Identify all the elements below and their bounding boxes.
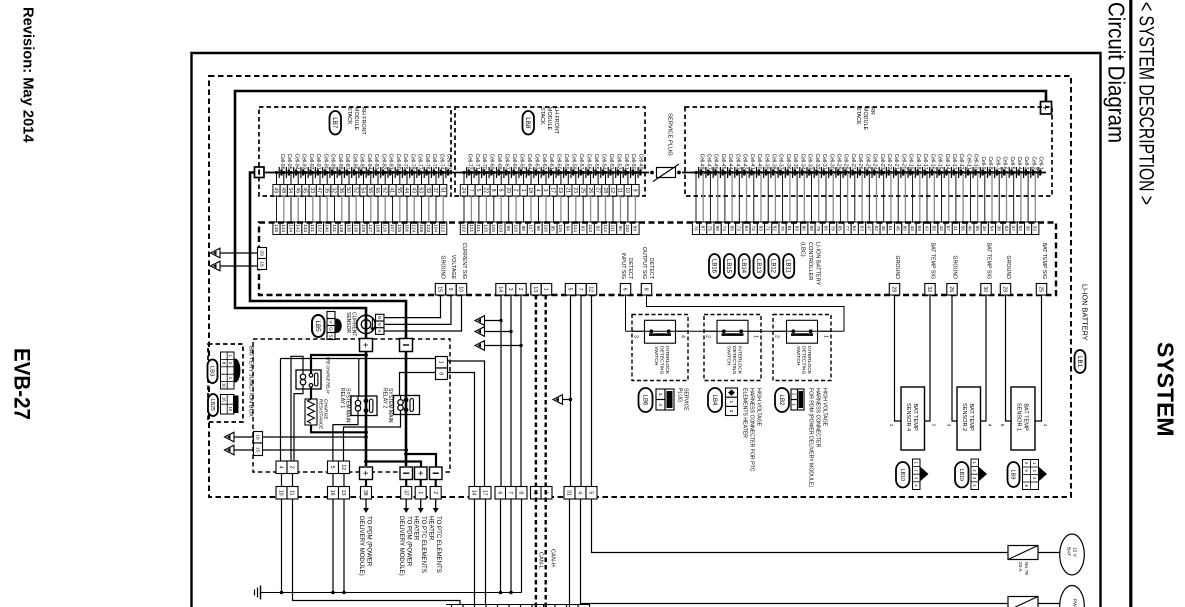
svg-text:25: 25 — [1038, 286, 1044, 292]
svg-text:20: 20 — [505, 187, 511, 193]
12 V battery ellipse — [1060, 534, 1085, 575]
svg-text:2: 2 — [792, 393, 797, 396]
connector grid LB3 — [221, 352, 235, 389]
terminal box + — [360, 339, 373, 352]
wire positive branch to + terminal 2 — [366, 462, 421, 468]
service plug disconnect symbol — [650, 171, 654, 175]
arrow to PDM (pin 37) — [405, 499, 407, 509]
svg-text:1: 1 — [1043, 424, 1048, 427]
svg-text:INTERLOCK: INTERLOCK — [737, 346, 743, 375]
svg-text:62: 62 — [381, 187, 387, 193]
svg-text:49: 49 — [273, 187, 279, 193]
svg-text:51: 51 — [439, 187, 445, 193]
harness triangle row 3 — [475, 341, 485, 351]
wire pin8 to ground — [521, 499, 523, 593]
current sensor toroid — [357, 315, 375, 333]
svg-text:35: 35 — [323, 187, 329, 193]
svg-text:5: 5 — [567, 288, 573, 291]
svg-text:HIGH VOLTAGE: HIGH VOLTAGE — [822, 388, 828, 427]
svg-text:8: 8 — [518, 491, 524, 494]
svg-text:23: 23 — [572, 187, 578, 193]
svg-text:75: 75 — [708, 226, 713, 232]
svg-text:137: 137 — [368, 224, 373, 232]
svg-text:1: 1 — [729, 401, 734, 404]
svg-text:Circuit Diagram: Circuit Diagram — [1104, 2, 1130, 143]
wire precharge branch bottom — [310, 387, 312, 399]
wire pin2 to pin11 — [292, 474, 294, 488]
svg-text:55: 55 — [396, 187, 402, 193]
svg-text:S: S — [376, 329, 382, 332]
svg-text:LB25: LB25 — [209, 399, 215, 411]
svg-text:BAT TEMP SIG: BAT TEMP SIG — [1041, 243, 1047, 279]
svg-text:CONTROLLER: CONTROLLER — [807, 242, 813, 280]
svg-text:15: 15 — [228, 407, 233, 412]
svg-text:RR: RR — [869, 107, 875, 115]
svg-text:TO PDM (POWER: TO PDM (POWER — [366, 516, 373, 567]
connector grid LB10 (sensor 2) — [971, 459, 979, 490]
svg-text:No.79: No.79 — [1023, 562, 1029, 575]
svg-text:SWITCH: SWITCH — [653, 346, 659, 366]
svg-text:SYSTEM: SYSTEM — [1153, 342, 1179, 437]
svg-text:31: 31 — [566, 490, 572, 496]
svg-text:3: 3 — [507, 288, 513, 291]
svg-text:LB13: LB13 — [755, 259, 761, 274]
svg-text:29: 29 — [1002, 286, 1008, 292]
svg-text:LH FRONT: LH FRONT — [553, 107, 559, 135]
connector oval LB3 — [208, 360, 218, 384]
svg-text:6: 6 — [497, 189, 503, 192]
svg-text:1: 1 — [438, 361, 444, 364]
power source ellipse — [1060, 586, 1085, 607]
wire pin6 to ground — [500, 499, 502, 593]
LBC pin 20 — [258, 248, 267, 259]
svg-text:18: 18 — [258, 261, 264, 267]
wire -2 to pin2 — [435, 480, 437, 488]
wire pin 16 voltage sense to + line — [263, 436, 367, 438]
junction box pin 5 bottom — [328, 461, 339, 474]
svg-text:4: 4 — [680, 335, 686, 338]
svg-text:CURRENT SIG: CURRENT SIG — [461, 243, 467, 279]
svg-text:112: 112 — [603, 224, 608, 232]
svg-text:BAT TEMP: BAT TEMP — [968, 403, 974, 431]
wire SMR2 coil return to pin 12 — [344, 415, 401, 462]
battery boundary pin 2 — [430, 487, 441, 500]
LBC pin 12 — [586, 284, 596, 296]
svg-text:Revision: May 2014: Revision: May 2014 — [20, 7, 36, 143]
svg-text:LB6: LB6 — [641, 395, 647, 406]
svg-text:12 V: 12 V — [1072, 547, 1078, 558]
svg-text:20: 20 — [258, 250, 264, 256]
header rule — [1129, 0, 1132, 607]
svg-text:8: 8 — [438, 372, 444, 375]
svg-text:93: 93 — [581, 226, 586, 232]
LBC pin 32 — [925, 284, 935, 296]
svg-text:65: 65 — [838, 226, 843, 232]
svg-text:6: 6 — [622, 288, 628, 291]
svg-text:56: 56 — [367, 187, 373, 193]
svg-text:70: 70 — [780, 226, 785, 232]
svg-text:SERVICE PLUG: SERVICE PLUG — [667, 113, 673, 156]
svg-text:5: 5 — [475, 189, 481, 192]
wire pin 15 voltage sense to - line — [263, 449, 407, 451]
svg-text:DETECT: DETECT — [648, 258, 654, 280]
svg-text:DELIVERY MODULE): DELIVERY MODULE) — [358, 516, 365, 576]
svg-text:FOR PDM (POWER DELIVERY MODULE: FOR PDM (POWER DELIVERY MODULE) — [808, 388, 814, 487]
wire HV positive through SMR1 — [365, 352, 368, 467]
svg-text:13: 13 — [340, 490, 346, 496]
current sensor connector pins V G S — [327, 312, 335, 340]
system main relay 1 — [351, 396, 377, 416]
svg-text:81: 81 — [787, 226, 792, 232]
svg-text:26: 26 — [587, 187, 593, 193]
svg-text:116: 116 — [543, 224, 548, 232]
wire LBC pin14 down to pin6 — [500, 295, 502, 487]
svg-text:5: 5 — [329, 466, 335, 469]
svg-text:RELAY 1: RELAY 1 — [339, 388, 345, 408]
svg-text:95: 95 — [551, 226, 556, 232]
svg-text:RESISTANCE: RESISTANCE — [318, 399, 324, 429]
svg-text:99: 99 — [506, 226, 511, 232]
svg-text:131: 131 — [332, 224, 337, 232]
svg-text:LB2: LB2 — [778, 395, 784, 406]
wire pin4 to pin10 — [281, 474, 283, 488]
svg-text:133: 133 — [303, 224, 308, 232]
svg-text:PLUG: PLUG — [677, 388, 683, 402]
svg-text:55: 55 — [975, 226, 980, 232]
svg-text:22: 22 — [483, 187, 489, 193]
svg-text:37: 37 — [432, 187, 438, 193]
wire fuse2 to power ellipse — [1038, 603, 1060, 605]
connector oval LB6 — [639, 388, 653, 412]
svg-text:DETECTING: DETECTING — [659, 346, 665, 374]
current sensor arrow — [371, 318, 373, 329]
svg-text:33: 33 — [309, 187, 315, 193]
terminal - output 2 — [430, 467, 443, 480]
svg-text:ELEMENTS HEATER: ELEMENTS HEATER — [742, 388, 748, 438]
RR module stack dashed box — [685, 107, 1052, 196]
svg-text:SENSOR 2: SENSOR 2 — [961, 403, 967, 431]
svg-text:STACK: STACK — [539, 107, 545, 125]
svg-text:LI-ION BATTERY: LI-ION BATTERY — [815, 242, 821, 286]
svg-text:1: 1 — [543, 288, 549, 291]
LBC pin 29 — [1000, 284, 1010, 296]
interlock detecting switch 3 dashed box — [773, 315, 831, 381]
svg-text:INTERLOCK: INTERLOCK — [664, 346, 670, 375]
wire cell bus — [264, 172, 649, 174]
svg-text:PRE-CHARGE RELAY: PRE-CHARGE RELAY — [325, 357, 331, 395]
svg-text:TO PDM (POWER: TO PDM (POWER — [406, 516, 413, 567]
svg-text:10: 10 — [458, 286, 464, 292]
svg-text:5: 5 — [588, 491, 594, 494]
svg-text:54: 54 — [989, 226, 994, 232]
svg-text:84: 84 — [744, 226, 749, 232]
LBC pin 10 — [456, 284, 466, 296]
svg-text:62: 62 — [874, 226, 879, 232]
harness triangle to pin 20 — [211, 248, 221, 258]
wire LBC pin3 down to pin7 — [510, 295, 512, 487]
svg-text:G: G — [327, 327, 333, 331]
svg-text:94: 94 — [566, 226, 571, 232]
svg-text:LB7: LB7 — [331, 117, 338, 129]
pre-charge relay — [296, 370, 321, 389]
svg-text:45: 45 — [896, 226, 901, 232]
ground symbol — [261, 592, 264, 594]
svg-text:107: 107 — [390, 224, 395, 232]
wire pin31 down — [569, 499, 571, 607]
svg-text:INPUT SIG: INPUT SIG — [620, 253, 626, 279]
svg-text:69: 69 — [794, 226, 799, 232]
connector grid LB25 — [221, 395, 235, 415]
svg-text:36: 36 — [1025, 226, 1030, 232]
svg-text:10: 10 — [624, 187, 630, 193]
svg-text:139: 139 — [339, 224, 344, 232]
svg-text:39: 39 — [425, 187, 431, 193]
svg-text:34: 34 — [287, 187, 293, 193]
svg-text:108: 108 — [375, 224, 380, 232]
li-ion battery boundary dashed box — [209, 76, 1071, 497]
battery boundary pin 17 — [480, 487, 491, 500]
svg-text:GROUND: GROUND — [1005, 255, 1011, 279]
svg-text:LB3: LB3 — [208, 366, 214, 376]
terminal + output — [360, 467, 373, 480]
svg-text:RH FRONT: RH FRONT — [360, 107, 366, 136]
svg-text:TO PTC ELEMENTS: TO PTC ELEMENTS — [420, 516, 427, 573]
wire HV bus negative from cell-96 via junction — [250, 173, 406, 340]
svg-text:EVB-27: EVB-27 — [10, 348, 35, 420]
LBC pin 9 — [446, 284, 456, 296]
svg-text:56: 56 — [960, 226, 965, 232]
terminal + output 2 — [415, 467, 428, 480]
svg-text:3: 3 — [729, 410, 734, 413]
svg-text:98: 98 — [521, 226, 526, 232]
wire LBC pin to bat temp sensor 1 left — [1006, 295, 1012, 421]
wire pin5 to fuse 1 — [592, 499, 1009, 553]
LBC pin 1 — [541, 284, 551, 296]
svg-text:61: 61 — [888, 226, 893, 232]
svg-text:143: 143 — [281, 224, 286, 232]
connector oval LB2 — [775, 388, 789, 412]
svg-text:113: 113 — [588, 224, 593, 232]
svg-text:88: 88 — [715, 226, 720, 232]
svg-text:BAT TEMP: BAT TEMP — [912, 403, 918, 431]
svg-text:83: 83 — [758, 226, 763, 232]
svg-text:18: 18 — [527, 187, 533, 193]
wire LBC pin to bat temp sensor 2 left — [952, 295, 957, 421]
svg-text:2: 2 — [432, 491, 438, 494]
svg-text:BAT TEMP: BAT TEMP — [1023, 403, 1029, 431]
battery boundary pin 2 — [531, 487, 542, 500]
svg-text:2: 2 — [289, 466, 295, 469]
svg-text:SENSOR 4: SENSOR 4 — [905, 403, 911, 431]
svg-text:102: 102 — [461, 224, 466, 232]
svg-text:< SYSTEM DESCRIPTION >: < SYSTEM DESCRIPTION > — [1135, 2, 1158, 205]
LH front module stack dashed box — [455, 107, 645, 196]
svg-text:VOLTAGE: VOLTAGE — [450, 255, 456, 280]
svg-text:47: 47 — [867, 226, 872, 232]
svg-text:14: 14 — [471, 490, 477, 496]
wire HV negative through SMR2 — [405, 352, 408, 467]
external module connector strip — [446, 604, 590, 606]
interlock detecting switch 2 dashed box — [704, 315, 761, 381]
junction box pin 4 bottom — [276, 461, 287, 474]
svg-text:89: 89 — [633, 226, 638, 232]
svg-text:PWR: PWR — [1072, 599, 1078, 607]
svg-text:50: 50 — [345, 187, 351, 193]
wire LBC pin15 to sensor G — [384, 295, 441, 318]
service plug connector 3|4 — [656, 389, 674, 410]
svg-text:STACK: STACK — [855, 107, 861, 125]
wire LBC pin5 down to pin31 — [570, 295, 572, 487]
wire LBC pin to bat temp sensor 2 right — [981, 295, 987, 421]
svg-text:LB10: LB10 — [958, 469, 964, 481]
svg-text:4: 4 — [987, 424, 992, 427]
svg-text:60: 60 — [903, 226, 908, 232]
svg-text:HARNESS CONNECTER FOR PTC: HARNESS CONNECTER FOR PTC — [749, 388, 755, 472]
svg-text:8: 8 — [643, 288, 649, 291]
svg-text:LB8: LB8 — [524, 117, 531, 129]
harness triangle row 2 — [475, 327, 485, 337]
svg-text:DELIVERY MODULE): DELIVERY MODULE) — [398, 516, 405, 576]
svg-text:3: 3 — [633, 335, 639, 338]
svg-text:142: 142 — [296, 224, 301, 232]
svg-text:2: 2 — [512, 189, 518, 192]
li-ion battery controller dashed box — [259, 223, 1056, 296]
junction box pin 1 — [436, 357, 448, 369]
battery boundary pin 38 — [361, 487, 372, 500]
wire LBC pin2 down to pin8 — [520, 295, 522, 487]
LBC pin 28 — [889, 284, 899, 296]
svg-text:114: 114 — [573, 224, 578, 232]
RH front module stack dashed box — [259, 107, 451, 196]
svg-text:82: 82 — [773, 226, 778, 232]
svg-text:73: 73 — [737, 226, 742, 232]
svg-text:RELAY 2: RELAY 2 — [382, 388, 388, 408]
junction triangle to pin 15 — [225, 445, 235, 455]
svg-text:87: 87 — [701, 226, 706, 232]
svg-text:32: 32 — [926, 286, 932, 292]
connector grid LB9 (sensor 1) — [1023, 460, 1039, 490]
junction triangle to pin 16 — [225, 432, 235, 442]
svg-text:SWITCH: SWITCH — [726, 346, 732, 366]
svg-text:HIGH VOLTAGE: HIGH VOLTAGE — [756, 388, 762, 427]
wire LBC pin to bat temp sensor 4 left — [895, 295, 902, 421]
svg-text:30: 30 — [982, 286, 988, 292]
connector oval LB9 (sensor 1) — [1008, 462, 1020, 487]
svg-text:19: 19 — [557, 187, 563, 193]
svg-text:16: 16 — [254, 434, 260, 440]
bat temp sensor bat temp sensor 2 box — [957, 387, 981, 450]
wire pin7 to ground — [510, 499, 512, 593]
svg-text:4: 4 — [278, 466, 284, 469]
svg-text:2: 2 — [774, 335, 780, 338]
svg-text:58: 58 — [932, 226, 937, 232]
battery boundary pin 11 — [287, 487, 298, 500]
svg-text:11: 11 — [289, 490, 295, 495]
svg-text:46: 46 — [881, 226, 886, 232]
svg-text:54: 54 — [360, 187, 366, 193]
svg-text:38: 38 — [362, 490, 368, 496]
svg-text:3: 3 — [946, 424, 951, 427]
LBC pin 2 — [516, 284, 526, 296]
switch body 3 — [787, 320, 818, 343]
svg-text:44: 44 — [910, 226, 915, 232]
svg-text:7: 7 — [577, 288, 583, 291]
svg-text:12: 12 — [609, 187, 615, 193]
svg-text:68: 68 — [809, 226, 814, 232]
svg-text:10: 10 — [278, 490, 284, 496]
svg-text:121: 121 — [469, 224, 474, 232]
svg-text:80: 80 — [802, 226, 807, 232]
svg-text:LB12: LB12 — [770, 259, 776, 274]
LBC pin 15 — [435, 284, 445, 296]
svg-text:+: + — [360, 470, 371, 476]
svg-text:MODULE: MODULE — [862, 107, 868, 130]
svg-text:39: 39 — [982, 226, 987, 232]
svg-text:2: 2 — [931, 424, 936, 427]
svg-text:124: 124 — [412, 224, 417, 232]
junction box pin 16 left — [254, 432, 263, 444]
wire pin8 to SMR2 coil — [400, 373, 436, 396]
svg-text:129: 129 — [361, 224, 366, 232]
wire pin8 right to pin 14 — [448, 373, 475, 487]
bat temp sensor bat temp sensor 1 box — [1011, 387, 1035, 450]
switch body 2 — [717, 320, 748, 343]
svg-text:126: 126 — [383, 224, 388, 232]
battery boundary pin 13 — [339, 487, 350, 500]
svg-text:125: 125 — [397, 224, 402, 232]
arrow to PTC (pin 2) — [435, 499, 437, 509]
connector oval LB10 (sensor 2) — [955, 462, 969, 488]
battery boundary pin 16 — [328, 487, 339, 500]
battery boundary pin 1 — [541, 487, 552, 500]
svg-text:92: 92 — [595, 226, 600, 232]
connector oval LB25 — [208, 394, 218, 416]
wire LBC pin7 down to pin4 — [580, 295, 582, 487]
fuse 2 — [1008, 597, 1038, 607]
svg-text:LB1: LB1 — [1076, 356, 1083, 368]
svg-text:42: 42 — [939, 226, 944, 232]
bat temp sensor bat temp sensor 4 box — [901, 387, 925, 450]
svg-text:S: S — [327, 334, 333, 337]
svg-text:DETECTING: DETECTING — [731, 346, 737, 374]
svg-text:10: 10 — [221, 383, 226, 388]
battery boundary pin 1 — [415, 487, 426, 500]
svg-text:BAT TEMP SIG: BAT TEMP SIG — [986, 243, 992, 279]
terminal box - — [400, 339, 413, 352]
svg-text:36: 36 — [338, 187, 344, 193]
svg-text:104: 104 — [433, 224, 438, 232]
svg-text:SENSOR: SENSOR — [345, 312, 351, 334]
svg-text:(LBC): (LBC) — [800, 242, 806, 257]
fuse No.79 20 A — [1008, 546, 1038, 560]
wire pin10 to ground — [281, 499, 283, 593]
svg-text:INTERLOCK: INTERLOCK — [806, 346, 812, 375]
interlock detecting switch 1 dashed box — [632, 315, 688, 381]
svg-text:4: 4 — [577, 491, 583, 494]
svg-text:52: 52 — [1018, 226, 1023, 232]
svg-text:13: 13 — [532, 286, 538, 292]
junction box pin 8 — [436, 368, 448, 380]
svg-text:3: 3 — [542, 189, 548, 192]
wire LBC pin to bat temp sensor 4 right — [925, 295, 931, 421]
battery boundary pin 6 — [495, 487, 506, 500]
svg-text:15: 15 — [437, 286, 443, 292]
svg-text:1: 1 — [889, 424, 894, 427]
LBC pin 30 — [981, 284, 991, 296]
svg-text:63: 63 — [418, 187, 424, 193]
wire LBC pin12 down to pin5 — [591, 295, 593, 487]
svg-text:43: 43 — [410, 187, 416, 193]
